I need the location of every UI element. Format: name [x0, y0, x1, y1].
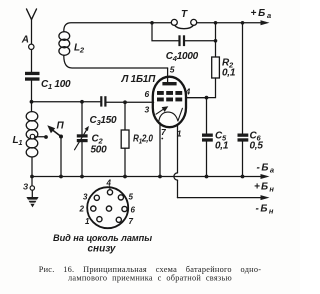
svg-text:C1 100: C1 100	[41, 79, 71, 91]
node screen grid	[205, 96, 209, 100]
capacitor C2 variable	[75, 102, 108, 177]
tube pin 7 lead	[160, 123, 167, 177]
antenna	[27, 9, 37, 44]
node A	[21, 35, 34, 50]
svg-text:3: 3	[145, 105, 150, 115]
svg-text:A: A	[21, 35, 29, 46]
node C4 right	[214, 39, 218, 43]
tube filament	[159, 108, 183, 123]
tube grids	[157, 91, 182, 101]
ground	[23, 177, 39, 208]
wire main grid bus	[32, 101, 101, 103]
node C2 tap	[80, 100, 84, 104]
wire antenna to C1	[31, 50, 33, 72]
svg-text:3: 3	[83, 193, 88, 202]
svg-text:Вид на цоколь лампы: Вид на цоколь лампы	[53, 233, 152, 243]
tube pin 1 lead with hop	[174, 124, 182, 197]
svg-text:6: 6	[131, 206, 136, 215]
wire C3 to grid	[107, 101, 154, 103]
tube grid arrow pins 6 3	[145, 89, 169, 115]
svg-text:лампового приемника с обрат: лампового приемника с обратной связью	[68, 274, 232, 283]
tube pin 4 lead	[185, 87, 207, 98]
node C6 top	[241, 21, 245, 25]
svg-text:З: З	[23, 183, 28, 192]
svg-text:7: 7	[129, 217, 134, 226]
svg-text:C41000: C41000	[166, 51, 199, 63]
svg-text:2: 2	[79, 205, 85, 214]
caption socket view	[53, 233, 152, 255]
svg-text:C3150: C3150	[90, 115, 118, 127]
terminal -Ba +Bn	[254, 163, 276, 194]
terminal -Bn	[256, 195, 275, 215]
node R1 top	[123, 100, 127, 104]
L1 tap	[30, 134, 48, 139]
capacitor C3	[90, 96, 118, 127]
wire rail -Bn	[178, 197, 263, 199]
svg-text:0,5: 0,5	[250, 141, 264, 152]
resistor R1	[121, 102, 153, 176]
svg-text:Л 1Б1П: Л 1Б1П	[121, 74, 157, 85]
node junction left	[30, 100, 34, 104]
svg-text:снизу: снизу	[88, 244, 116, 255]
capacitor C5	[202, 98, 229, 177]
node R2 top	[214, 21, 218, 25]
capacitor C6	[238, 23, 264, 177]
wire common rail -Ba +Bn	[32, 176, 262, 178]
capacitor C4	[152, 23, 216, 63]
resistor R2	[186, 23, 236, 98]
node C4 left	[150, 21, 154, 25]
wire C1 to node	[31, 81, 33, 102]
svg-text:1: 1	[177, 129, 182, 139]
svg-text:6: 6	[145, 89, 150, 99]
svg-text:5: 5	[129, 193, 134, 202]
svg-text:П: П	[57, 121, 65, 132]
figure caption	[39, 265, 262, 283]
headphones T	[152, 9, 197, 29]
svg-text:1: 1	[85, 217, 90, 226]
svg-text:0,1: 0,1	[215, 141, 229, 152]
wire T to +Ba	[197, 22, 262, 24]
rail junction dots	[30, 175, 244, 179]
svg-text:500: 500	[91, 145, 108, 156]
switch П	[47, 121, 64, 177]
capacitor C1	[25, 72, 71, 91]
svg-text:4: 4	[185, 87, 191, 97]
inductor L2	[59, 23, 168, 68]
terminal +Ba	[251, 8, 274, 25]
svg-text:4: 4	[106, 179, 112, 188]
inductor L1	[13, 102, 38, 177]
tube U1 1B1P envelope	[121, 74, 187, 127]
tube anode lead pin 5	[162, 65, 176, 86]
tube socket view	[79, 179, 136, 229]
svg-text:5: 5	[170, 65, 175, 75]
svg-text:0,1: 0,1	[222, 68, 236, 79]
